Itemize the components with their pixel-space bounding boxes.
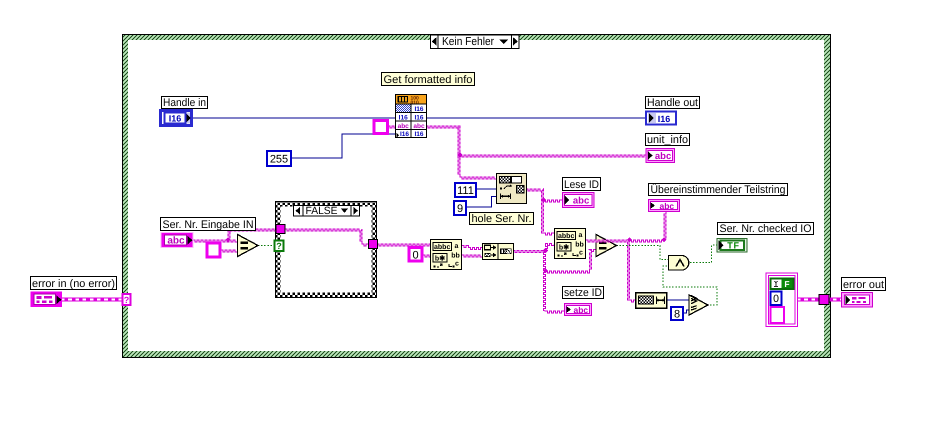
- svg-text:c: c: [455, 261, 459, 268]
- svg-text:abbc: abbc: [434, 243, 450, 251]
- svg-text:111: 111: [457, 185, 474, 197]
- svg-text:Handle out: Handle out: [647, 97, 698, 109]
- svg-text:8: 8: [674, 309, 680, 321]
- svg-text:bb: bb: [451, 252, 460, 260]
- svg-text:abbc: abbc: [558, 232, 574, 240]
- svg-text:F: F: [784, 279, 789, 289]
- svg-text:setze ID: setze ID: [564, 287, 602, 299]
- svg-text:?: ?: [276, 241, 282, 251]
- svg-text:b✱: b✱: [435, 255, 445, 263]
- svg-text:bb: bb: [575, 241, 584, 249]
- svg-text:Kein Fehler: Kein Fehler: [442, 36, 494, 48]
- svg-text:abc: abc: [655, 151, 671, 162]
- svg-text:abc: abc: [659, 201, 674, 211]
- svg-text:Handle in: Handle in: [163, 97, 206, 109]
- svg-text:abc: abc: [167, 236, 185, 247]
- svg-text:abc: abc: [573, 195, 589, 206]
- svg-text:I16: I16: [658, 114, 671, 124]
- svg-text:255: 255: [270, 154, 288, 166]
- svg-text:I16: I16: [414, 131, 423, 138]
- svg-text:9: 9: [457, 203, 463, 215]
- svg-text:abc: abc: [573, 305, 588, 315]
- svg-text:FALSE: FALSE: [306, 205, 338, 217]
- svg-text:0: 0: [773, 293, 779, 305]
- svg-text:c: c: [579, 250, 583, 257]
- svg-text:error in (no error): error in (no error): [32, 278, 115, 290]
- svg-text:TF: TF: [727, 241, 740, 251]
- svg-text:Ser. Nr. Eingabe IN: Ser. Nr. Eingabe IN: [163, 219, 254, 231]
- svg-text:hole Ser. Nr.: hole Ser. Nr.: [472, 213, 532, 225]
- svg-text:I16: I16: [399, 114, 408, 121]
- svg-text:a: a: [579, 232, 583, 239]
- svg-text:abc: abc: [413, 123, 425, 130]
- svg-text:I16: I16: [414, 114, 423, 121]
- svg-text:?: ?: [124, 295, 130, 305]
- svg-text:I16: I16: [169, 114, 182, 124]
- svg-text:I16: I16: [414, 106, 423, 113]
- svg-text:Get formatted info: Get formatted info: [384, 74, 473, 86]
- svg-text:unit_info: unit_info: [647, 134, 688, 146]
- svg-text:b✱: b✱: [559, 244, 569, 252]
- svg-text:abc: abc: [398, 123, 410, 130]
- svg-text:Übereinstimmender Teilstring: Übereinstimmender Teilstring: [651, 183, 786, 196]
- svg-text:a: a: [455, 243, 459, 250]
- svg-text:Lese ID: Lese ID: [564, 179, 599, 191]
- svg-text:Ser. Nr. checked IO: Ser. Nr. checked IO: [720, 223, 812, 235]
- svg-text:error out: error out: [843, 279, 884, 291]
- svg-text:I16: I16: [400, 131, 409, 138]
- svg-text:0: 0: [412, 249, 418, 261]
